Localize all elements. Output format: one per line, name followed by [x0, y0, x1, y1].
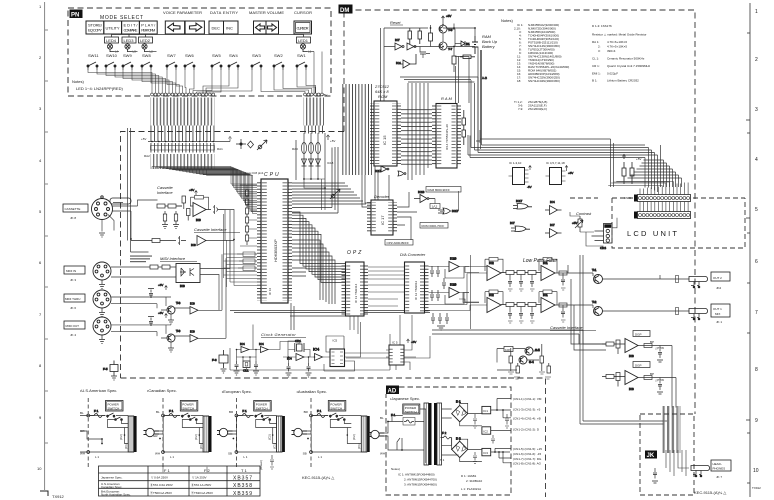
LED L3	[125, 43, 132, 52]
connector DIN midi out	[93, 317, 111, 335]
svg-text:IC 13 YM2414: IC 13 YM2414	[354, 284, 358, 303]
junction dots lower branches	[124, 434, 348, 436]
wire gates cluster	[435, 191, 459, 212]
wire lower switch branches all sections	[125, 428, 362, 444]
capacitor thru bias	[148, 289, 154, 299]
svg-text:IC17: IC17	[516, 199, 523, 203]
resistor hang cassette a	[162, 211, 168, 229]
wire T2 to jack	[602, 308, 689, 315]
wire led bus	[114, 51, 314, 53]
Australian spec section	[292, 398, 370, 468]
transistor T-8	[439, 25, 453, 33]
label Low Pass Filter	[523, 258, 558, 264]
label CASSETTE JK8	[63, 204, 88, 220]
svg-text:F-5: F-5	[103, 367, 108, 371]
svg-text:MASTER VOLUME: MASTER VOLUME	[249, 10, 284, 15]
svg-text:IC10: IC10	[450, 283, 457, 287]
svg-text:IC9: IC9	[196, 218, 201, 222]
wire regulators to outputs	[491, 399, 511, 463]
svg-text:UTILITY: UTILITY	[106, 26, 120, 31]
connector DIN midi in	[93, 262, 111, 280]
button master vol right arrow	[266, 21, 279, 34]
button master vol left arrow	[254, 21, 267, 34]
svg-text:RAM 8000-9FFF: RAM 8000-9FFF	[428, 188, 451, 192]
capacitor out bias	[148, 317, 154, 327]
svg-text:D 1: 10AB1: D 1: 10AB1	[461, 474, 477, 478]
transistor T-9 midi	[167, 329, 181, 342]
resonator CL1	[243, 361, 250, 373]
wire vertical bundle left of ROM	[342, 84, 372, 175]
svg-text:DM: DM	[340, 8, 349, 14]
svg-text:18:: 18:	[517, 79, 521, 83]
LED L2	[142, 43, 149, 52]
wire CPU right stair to OPZ	[292, 212, 345, 282]
svg-text:SW1: SW1	[297, 53, 306, 58]
power +5V thru	[158, 283, 167, 290]
shield loop cassette	[110, 198, 131, 204]
svg-text:(CN1-8) (CN1-8): AG: (CN1-8) (CN1-8): AG	[513, 462, 542, 466]
svg-text:JK 3: JK 3	[70, 278, 76, 282]
power switch box Japanese	[403, 404, 420, 414]
gate IC17 or	[438, 208, 459, 214]
IC16 CPU body	[261, 179, 288, 303]
fuse table header	[164, 468, 247, 473]
boxed label RAM address	[426, 187, 461, 193]
IC5 small block right	[389, 341, 404, 366]
svg-text:Notes): Notes)	[391, 467, 400, 471]
svg-text:Battery: Battery	[482, 44, 496, 49]
wire contrast to CN2	[570, 212, 617, 246]
svg-text:•Canadian Spec.: •Canadian Spec.	[147, 388, 177, 393]
svg-text:DGP: DGP	[635, 333, 642, 337]
gate IC7 a	[395, 38, 404, 50]
boxed label 1A2	[430, 204, 440, 209]
capacitor C reset	[420, 52, 426, 58]
transistor T-4	[519, 356, 534, 364]
svg-text:4.7K×5+10K×5: 4.7K×5+10K×5	[607, 45, 627, 49]
svg-text:SWITCH: SWITCH	[330, 407, 342, 411]
svg-text:WH: WH	[155, 452, 160, 456]
svg-text:+5V: +5V	[158, 311, 163, 315]
svg-text:10: 10	[753, 468, 759, 474]
svg-text:(C2): (C2)	[267, 434, 271, 440]
svg-text:+5V: +5V	[572, 221, 577, 225]
LED1 label	[297, 37, 311, 43]
switch labels SW11..SW1	[88, 53, 306, 58]
svg-text:RA3: RA3	[292, 147, 298, 151]
svg-text:HD63B03XP: HD63B03XP	[273, 239, 278, 262]
RAM pin stubs right	[457, 106, 461, 166]
trimmer contrast	[572, 216, 583, 232]
gate IC17b	[398, 171, 406, 176]
resistor pair lcd power	[622, 155, 634, 185]
junction dots clock1	[236, 349, 257, 358]
svg-text:10K: 10K	[505, 348, 510, 352]
power +5V ic5	[407, 339, 417, 344]
wire long verticals to RAM vcc	[456, 56, 470, 103]
OPZ pin stubs right	[364, 264, 368, 315]
power +5V arrow top	[442, 14, 452, 20]
svg-text:+5V: +5V	[189, 188, 194, 192]
svg-text:IC 15: IC 15	[382, 135, 387, 145]
notes text	[72, 79, 123, 91]
svg-text:Lithium Battery CR2032: Lithium Battery CR2032	[607, 79, 639, 83]
node adjust arrow	[257, 140, 267, 150]
svg-text:F 1: F 1	[94, 409, 99, 413]
rail +5V comb RA2	[148, 137, 232, 142]
transistor T-7	[439, 42, 453, 51]
IC12 DA body YM3012	[405, 262, 425, 313]
svg-text:Quartz Crystal Unit 7.15909MH: Quartz Crystal Unit 7.15909MHz	[607, 64, 651, 68]
resistor array RA3	[301, 133, 329, 188]
label OUT 2 JK2	[711, 272, 730, 290]
svg-text:Decoder: Decoder	[374, 194, 390, 199]
op-amp IC1 row2	[541, 293, 555, 313]
svg-text:SWITCH: SWITCH	[108, 407, 120, 411]
wire US section	[80, 416, 129, 453]
svg-text:TX912: TX912	[752, 486, 761, 490]
power +5V out	[158, 311, 167, 318]
svg-text:A-B: A-B	[482, 76, 487, 80]
label ROM 27C512	[374, 84, 390, 99]
European spec section	[217, 398, 285, 470]
svg-text:Canadian Spec.: Canadian Spec.	[101, 485, 123, 489]
LED L1	[300, 43, 307, 52]
svg-text:△PTW: △PTW	[655, 346, 664, 350]
ground clock 2	[253, 371, 259, 375]
svg-text:SW9: SW9	[123, 53, 132, 58]
svg-text:D 2: D 2	[456, 437, 461, 441]
label MIDI Interface	[160, 256, 197, 262]
wire pullups to CPU	[240, 185, 257, 246]
svg-text:T-7: T-7	[448, 47, 453, 51]
switch symbols row	[87, 62, 307, 70]
svg-text:ⓉT630mA 250V: ⓉT630mA 250V	[191, 490, 213, 495]
wire clock stage2	[283, 322, 361, 371]
svg-text:•Australian Spec.: •Australian Spec.	[297, 389, 328, 394]
wire decoder outputs	[397, 192, 417, 240]
notes list right column	[592, 24, 651, 83]
fuse F1 European	[238, 409, 254, 418]
node circles US	[87, 414, 90, 453]
svg-text:PN: PN	[71, 13, 79, 19]
feedback resistor row2b	[539, 290, 557, 305]
LED4 label	[105, 37, 119, 43]
transistor T-8 midi	[167, 301, 181, 314]
resistor vertical pair cassette	[182, 196, 190, 221]
svg-text:IC5: IC5	[333, 339, 338, 343]
wire long horizontals below CPU	[230, 303, 430, 330]
wire clock stage1	[237, 325, 297, 372]
boxed labels left of CPU	[243, 252, 255, 271]
capacitor clock c3	[287, 363, 291, 372]
wire CPU lower-left feeds	[224, 214, 258, 287]
Japanese spec section	[369, 397, 543, 491]
node test point cross	[236, 139, 246, 149]
svg-text:2SC2603(E,F): 2SC2603(E,F)	[528, 107, 547, 111]
wire transformer to bridges	[441, 403, 482, 461]
wire midi out	[111, 258, 226, 348]
svg-text:CN4: CN4	[600, 246, 606, 250]
wire clock out horizontals	[230, 315, 430, 370]
svg-text:IC 5: IC 5	[392, 341, 398, 345]
regulator IC1	[482, 406, 491, 413]
wire midi thru	[111, 254, 222, 320]
capacitor IC3 lower	[657, 378, 663, 395]
svg-text:D/A Converter: D/A Converter	[400, 252, 426, 257]
svg-text:IC9: IC9	[190, 330, 195, 334]
svg-text:RA2: RA2	[144, 154, 150, 158]
svg-text:L 1: L 1	[318, 455, 322, 459]
optocoupler IC8	[176, 264, 200, 289]
svg-text:T-8: T-8	[176, 301, 181, 305]
fuse table row1	[101, 476, 206, 480]
ground LPF row2	[508, 320, 566, 323]
svg-text:CASSETTE: CASSETTE	[65, 207, 81, 211]
junction dots RA3	[303, 178, 326, 189]
svg-text:OUT 2: OUT 2	[713, 276, 722, 280]
capacitor jp 3	[473, 452, 477, 464]
svg-text:IC 17: IC 17	[380, 215, 385, 225]
filter F-6	[212, 350, 228, 373]
svg-text:IC4: IC4	[313, 347, 320, 352]
svg-text:DGP: DGP	[635, 364, 642, 368]
svg-text:IC9: IC9	[191, 243, 196, 247]
wire IC5 right nets	[386, 315, 416, 370]
svg-text:IC2: IC2	[489, 261, 494, 265]
node CN8 rotated labels band	[151, 98, 215, 126]
connector net labels right column	[513, 397, 542, 466]
OPZ pin stubs left	[342, 264, 346, 315]
wire led anode rail	[112, 35, 304, 38]
button PLAY/PERFORM	[139, 21, 157, 34]
svg-text:L 1: PLA3021A: L 1: PLA3021A	[461, 487, 481, 491]
svg-text:▽ 1A 250V: ▽ 1A 250V	[192, 476, 206, 480]
svg-text:INC: INC	[226, 26, 233, 31]
LED3 label	[122, 37, 136, 43]
wire CN3 to LCD connector	[608, 182, 688, 212]
label Reset	[390, 20, 403, 25]
wire OPZ to DA	[368, 267, 404, 306]
svg-text:(CN1-5) (CN1-5): +15: (CN1-5) (CN1-5): +15	[513, 447, 542, 451]
svg-text:IC3: IC3	[629, 387, 634, 391]
svg-text:9: 9	[755, 418, 758, 424]
svg-text:(C1): (C1)	[124, 443, 128, 449]
svg-text:MIDI OUT: MIDI OUT	[66, 324, 80, 328]
label OPZ	[347, 250, 363, 256]
svg-text:RAM: RAM	[441, 96, 453, 101]
svg-text:IC 4,5,7,11,18: IC 4,5,7,11,18	[546, 161, 565, 165]
wire data bus ROM to RAM	[401, 106, 432, 165]
svg-text:4: 4	[755, 157, 758, 163]
left margin ruler	[45, 2, 48, 490]
rotated note below european	[259, 460, 263, 470]
resistors cassette cluster	[509, 344, 551, 373]
svg-text:IC1: IC1	[483, 409, 488, 413]
svg-text:RA1: RA1	[217, 147, 223, 151]
RAM pin stubs left	[432, 106, 436, 166]
power +5V arrow dec2	[565, 166, 573, 176]
resistor array RA2 comb	[151, 143, 215, 153]
power switch box European	[254, 401, 272, 412]
switch contacts European	[255, 413, 271, 420]
regulator IC3	[482, 448, 491, 455]
decoder pin stubs left	[367, 202, 371, 233]
svg-text:IC 12 YM3012: IC 12 YM3012	[414, 281, 418, 300]
svg-text:DATA ENTRY: DATA ENTRY	[210, 10, 238, 15]
svg-text:+5V: +5V	[568, 171, 573, 175]
regulator IC2	[482, 427, 491, 434]
AD label	[386, 386, 399, 395]
resistor R near reset	[429, 25, 433, 41]
svg-text:IC4: IC4	[259, 342, 264, 346]
ground midi out din	[99, 335, 105, 344]
board DM dashed boundary	[121, 10, 696, 414]
gate IC18 inv	[414, 190, 435, 203]
svg-text:IC3: IC3	[629, 354, 634, 358]
IC14 RAM body	[436, 104, 457, 169]
svg-text:WH: WH	[380, 452, 385, 456]
svg-text:IC14 TC5564PL-20: IC14 TC5564PL-20	[445, 124, 449, 150]
feedback resistor cassette	[191, 196, 209, 210]
gate IC7 lcd b	[545, 223, 562, 238]
connector DIN cassette	[92, 196, 113, 220]
IC decoupling block 2	[546, 168, 566, 185]
svg-text:MIDI IN: MIDI IN	[66, 269, 76, 273]
boxed label DGP 1	[633, 331, 650, 337]
button CURSOR	[294, 21, 312, 34]
svg-text:F 2: F 2	[204, 468, 211, 473]
gate IC4 clock c	[287, 354, 304, 361]
svg-text:LED2: LED2	[140, 38, 151, 43]
button STORE/EQ COPY	[86, 21, 104, 34]
bridge rectifier D-1	[452, 400, 468, 422]
svg-text:(C2): (C2)	[119, 434, 123, 440]
svg-text:IC9: IC9	[190, 302, 195, 306]
svg-text:+5V: +5V	[411, 340, 416, 344]
button INC	[224, 21, 239, 34]
svg-text:RA 1:: RA 1:	[592, 40, 600, 44]
IC15 ROM body	[374, 101, 397, 166]
resistor IC3 lower left	[602, 373, 625, 387]
capacitor jp 4	[491, 435, 495, 444]
wire bus left below labels	[151, 126, 215, 142]
filter F-5	[103, 361, 118, 381]
resistor 10K box	[504, 347, 513, 352]
op-amp IC10 a	[445, 257, 464, 279]
svg-text:7-9:: 7-9:	[518, 107, 523, 111]
svg-text:JK 6: JK 6	[70, 306, 76, 310]
ground clock 3	[286, 373, 292, 377]
svg-text:KEC-9115-(A)¼ △: KEC-9115-(A)¼ △	[694, 490, 727, 495]
svg-text:SW4: SW4	[229, 53, 238, 58]
boxed label DGP 2	[633, 362, 650, 368]
svg-text:SW10: SW10	[106, 53, 118, 58]
resistor IC3 upper left	[602, 340, 625, 354]
plug Japanese	[369, 430, 385, 438]
svg-text:IC7: IC7	[395, 38, 400, 42]
wire Canadian section	[159, 416, 203, 453]
ground thru	[168, 320, 174, 324]
svg-text:JK 1: JK 1	[716, 320, 722, 324]
svg-text:COMPARE: COMPARE	[124, 28, 138, 33]
power switch box US	[106, 401, 124, 412]
resistor midi in 1	[150, 265, 170, 269]
label CPU	[264, 172, 281, 178]
LCD UNIT dashed box	[570, 198, 745, 248]
svg-text:+5V: +5V	[158, 283, 163, 287]
svg-text:+5V: +5V	[330, 139, 335, 143]
wire cassette cluster	[497, 349, 540, 371]
jack OUT2	[689, 277, 708, 288]
wire reset net	[384, 20, 475, 87]
svg-text:1⋀2: 1⋀2	[432, 205, 438, 209]
wire bus to LCD	[468, 50, 682, 192]
feedback resistor row1b	[539, 258, 557, 274]
op-amp IC9 lower	[191, 236, 206, 248]
svg-text:5: 5	[755, 207, 758, 213]
svg-text:SW2: SW2	[274, 53, 283, 58]
wire long verticals right section	[432, 255, 667, 424]
capacitor IC3 upper	[657, 346, 663, 363]
IC5 block	[330, 339, 345, 367]
wire bus right below labels	[304, 126, 325, 134]
gate IC17a by ROM	[375, 166, 389, 173]
capacitor clock c4	[307, 363, 311, 372]
svg-text:D 1-3: 1SS176: D 1-3: 1SS176	[592, 24, 612, 28]
op-amp IC3 upper	[625, 339, 638, 359]
boxed label OPZ address	[385, 240, 413, 246]
svg-text:MIX: MIX	[715, 312, 720, 316]
svg-text:+5V: +5V	[322, 93, 327, 97]
svg-text:MIDI THRU: MIDI THRU	[65, 297, 80, 301]
svg-text:8: 8	[755, 367, 758, 373]
svg-text:390×4: 390×4	[607, 49, 616, 53]
svg-text:F 1: F 1	[317, 409, 322, 413]
gate IC17 lcd a	[513, 199, 532, 209]
button voice param left arrow	[165, 21, 184, 34]
transformer Australian	[361, 416, 369, 452]
wire bus upper branch	[476, 130, 614, 187]
op-amp IC1 row1	[541, 261, 555, 281]
capacitor clock c2	[254, 361, 258, 370]
ROM pin stubs right	[397, 103, 401, 164]
node rotated net labels under RA2	[151, 154, 215, 169]
ROM pin stubs left	[370, 103, 374, 164]
fuse table row2	[101, 482, 211, 489]
label RAM Back Up Battery	[482, 34, 498, 49]
plug European	[217, 428, 233, 436]
label HEAD-PHONES JK7	[711, 460, 731, 479]
DA pin stubs right	[425, 264, 429, 312]
svg-text:JK2: JK2	[716, 286, 722, 290]
battery B1	[466, 36, 478, 54]
op-amp IC9 cassette	[193, 203, 206, 223]
fuse F1 US	[90, 409, 106, 418]
boxed label ROM address	[420, 223, 448, 229]
svg-text:S-4: S-4	[529, 360, 534, 364]
fuse F1 Japanese	[391, 413, 415, 425]
svg-text:3: 3	[755, 107, 758, 113]
power switch box Canadian	[180, 401, 198, 412]
svg-text:T-2: T-2	[592, 300, 597, 304]
svg-text:North Australian Spec.: North Australian Spec.	[101, 493, 131, 497]
resistor pair by RAM right	[462, 110, 466, 145]
PN label	[70, 10, 83, 19]
svg-text:10: 10	[37, 466, 42, 471]
svg-text:Ⓢ5TA 1A 250V: Ⓢ5TA 1A 250V	[191, 482, 211, 487]
wire DA to LPF feed	[459, 267, 479, 303]
